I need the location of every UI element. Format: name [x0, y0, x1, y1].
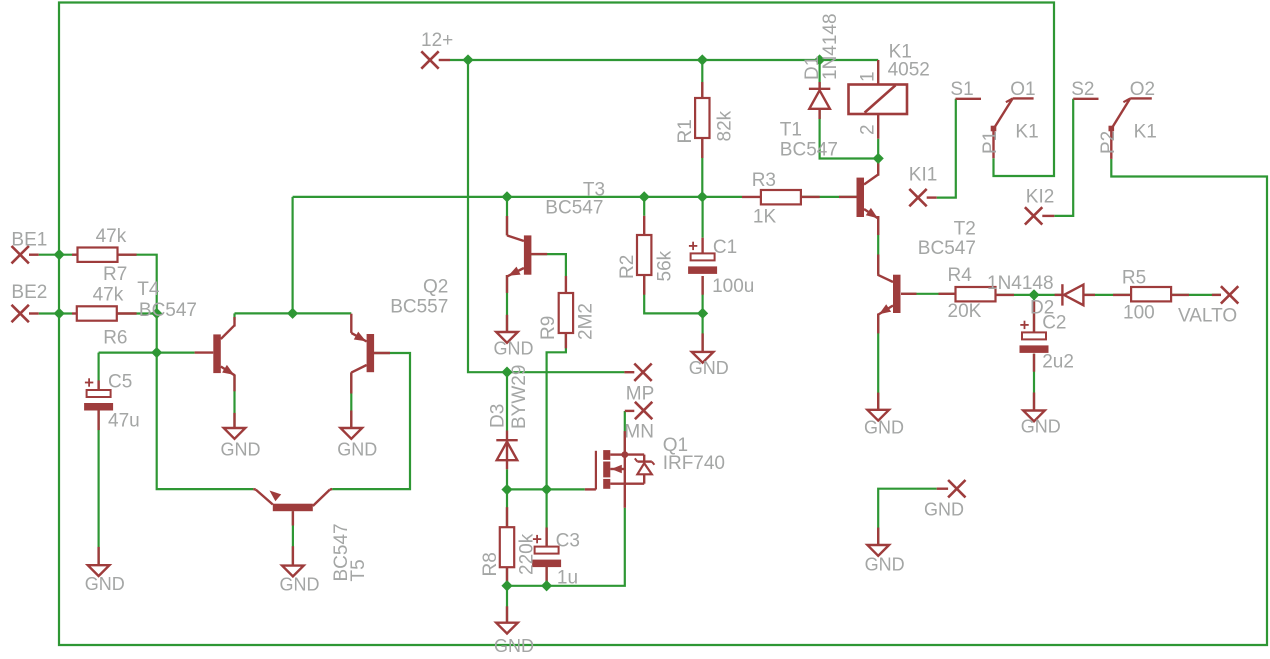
svg-text:GND: GND — [85, 574, 125, 594]
svg-text:T2: T2 — [954, 219, 976, 240]
svg-text:Q2: Q2 — [423, 277, 448, 298]
svg-text:T5: T5 — [348, 559, 369, 581]
svg-text:C1: C1 — [713, 237, 737, 258]
svg-text:R6: R6 — [103, 328, 127, 349]
svg-text:100: 100 — [1123, 303, 1155, 324]
svg-text:K1: K1 — [1015, 122, 1038, 143]
svg-text:BE1: BE1 — [11, 230, 47, 251]
svg-text:GND: GND — [864, 418, 904, 438]
svg-text:C5: C5 — [108, 372, 132, 393]
svg-text:100u: 100u — [712, 276, 754, 297]
svg-text:1N4148: 1N4148 — [820, 13, 841, 80]
svg-text:BE2: BE2 — [11, 282, 47, 303]
svg-text:82k: 82k — [715, 110, 736, 141]
svg-text:GND: GND — [337, 440, 377, 460]
svg-text:47k: 47k — [93, 285, 124, 306]
svg-text:VALTO: VALTO — [1178, 306, 1237, 327]
svg-text:GND: GND — [924, 500, 964, 520]
svg-text:D3: D3 — [488, 404, 509, 428]
svg-text:2M2: 2M2 — [575, 303, 596, 340]
svg-text:R9: R9 — [538, 316, 559, 340]
svg-text:R3: R3 — [752, 170, 776, 191]
svg-text:BYW29: BYW29 — [509, 365, 530, 429]
svg-text:R4: R4 — [948, 265, 973, 286]
svg-text:20K: 20K — [948, 301, 982, 322]
svg-text:BC557: BC557 — [390, 297, 448, 318]
svg-text:GND: GND — [689, 358, 729, 378]
svg-text:BC547: BC547 — [918, 238, 976, 259]
svg-text:GND: GND — [494, 339, 534, 359]
svg-text:K1: K1 — [1134, 122, 1157, 143]
svg-text:O2: O2 — [1130, 79, 1155, 100]
svg-text:KI2: KI2 — [1026, 187, 1055, 208]
svg-text:R1: R1 — [675, 119, 696, 143]
svg-text:1K: 1K — [753, 207, 777, 228]
svg-text:T1: T1 — [780, 120, 802, 141]
svg-text:R2: R2 — [617, 255, 638, 279]
svg-text:BC547: BC547 — [545, 198, 603, 219]
svg-text:O1: O1 — [1010, 79, 1035, 100]
svg-text:12+: 12+ — [421, 30, 453, 51]
svg-text:T4: T4 — [137, 279, 160, 300]
svg-text:R5: R5 — [1122, 268, 1146, 289]
svg-text:1N4148: 1N4148 — [987, 273, 1054, 294]
svg-text:R7: R7 — [103, 264, 127, 285]
svg-text:BC547: BC547 — [139, 300, 197, 321]
svg-text:2u2: 2u2 — [1042, 352, 1074, 373]
svg-text:IRF740: IRF740 — [663, 453, 725, 474]
svg-text:GND: GND — [280, 575, 320, 595]
svg-text:MP: MP — [626, 384, 655, 405]
svg-text:220k: 220k — [517, 533, 538, 575]
svg-text:GND: GND — [494, 636, 534, 656]
svg-text:47k: 47k — [96, 226, 127, 247]
svg-text:R8: R8 — [480, 552, 501, 576]
svg-text:C3: C3 — [556, 531, 580, 552]
svg-text:GND: GND — [865, 555, 905, 575]
svg-text:GND: GND — [221, 440, 261, 460]
svg-text:47u: 47u — [108, 411, 140, 432]
svg-text:2: 2 — [858, 124, 879, 135]
svg-text:GND: GND — [1021, 417, 1061, 437]
svg-text:1u: 1u — [557, 568, 578, 589]
svg-text:KI1: KI1 — [909, 165, 938, 186]
svg-text:P2: P2 — [1098, 131, 1119, 154]
svg-text:MN: MN — [624, 422, 654, 443]
svg-text:S2: S2 — [1071, 79, 1094, 100]
svg-text:1: 1 — [858, 71, 879, 82]
svg-text:BC547: BC547 — [780, 140, 838, 161]
svg-text:4052: 4052 — [888, 60, 930, 81]
svg-text:56k: 56k — [655, 250, 676, 281]
svg-text:P1: P1 — [980, 131, 1001, 154]
svg-text:C2: C2 — [1042, 313, 1066, 334]
svg-text:S1: S1 — [950, 79, 973, 100]
